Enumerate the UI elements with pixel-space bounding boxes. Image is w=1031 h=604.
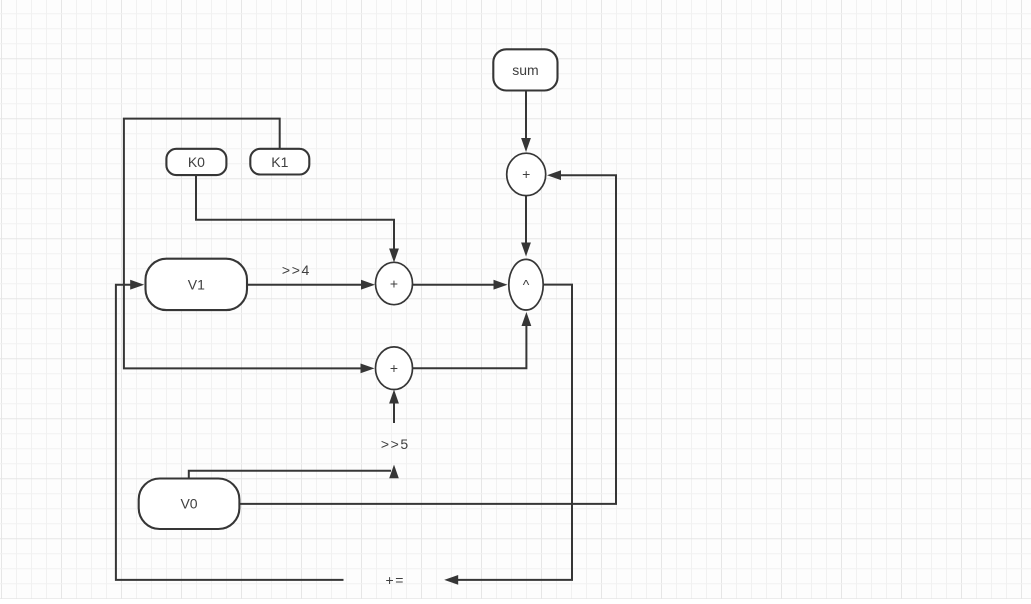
svg-text:^: ^	[523, 277, 530, 293]
svg-text:+: +	[522, 166, 530, 182]
svg-text:K1: K1	[271, 154, 288, 170]
svg-text:K0: K0	[188, 154, 205, 170]
svg-text:>>4: >>4	[282, 262, 311, 278]
svg-text:sum: sum	[512, 62, 538, 78]
svg-text:V0: V0	[180, 496, 197, 512]
svg-text:+: +	[390, 275, 398, 291]
svg-text:V1: V1	[188, 277, 205, 293]
svg-text:+: +	[390, 360, 398, 376]
svg-text:+=: +=	[386, 572, 405, 588]
svg-text:>>5: >>5	[381, 436, 410, 452]
